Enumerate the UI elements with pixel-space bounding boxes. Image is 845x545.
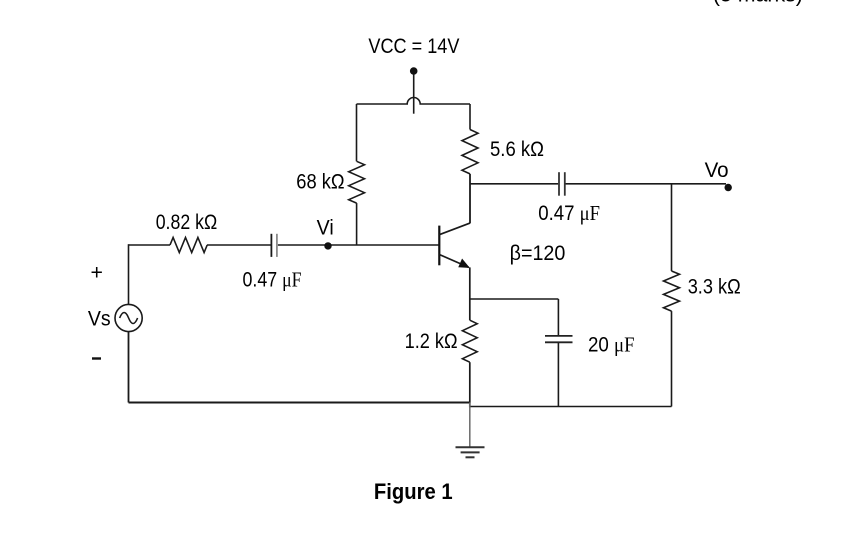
svg-text:0.47 μF: 0.47 μF [538, 201, 600, 225]
wire Vs upper lead [128, 244, 130, 304]
wire output node to R 3.3k [671, 184, 673, 271]
wire base line from Vi node into base [278, 244, 439, 246]
node Vi dot [324, 242, 331, 249]
svg-text:Vs: Vs [88, 307, 111, 331]
wire bottom right rail [470, 406, 672, 408]
resistor 1.2k zigzag [462, 320, 477, 362]
resistor 3.3k zigzag [664, 271, 680, 311]
node Vo terminal dot [725, 184, 732, 191]
wire top supply rail with hop over VCC stem [357, 98, 471, 105]
wire R 68k bottom to base node [356, 203, 358, 245]
label 0.47 uF output [538, 201, 600, 225]
wire emitter vertical upper [469, 267, 471, 320]
svg-text:Vi: Vi [317, 216, 334, 240]
wire resistor 1.2k bottom to ground rail [469, 362, 471, 407]
label Vs [88, 307, 111, 331]
wire R 3.3k bottom to ground rail [671, 311, 673, 406]
svg-text:0.82 kΩ: 0.82 kΩ [156, 210, 218, 234]
wire emitter tee to bypass cap [470, 299, 559, 335]
svg-text:0.47 μF: 0.47 μF [243, 268, 302, 292]
label Vi [317, 216, 334, 240]
wire bypass cap bottom lead [557, 343, 559, 407]
transistor Q1 emitter lead with arrow [439, 255, 469, 268]
svg-text:5.6 kΩ: 5.6 kΩ [490, 137, 544, 161]
svg-text:Vo: Vo [705, 158, 729, 182]
resistor 5.6k zigzag [462, 130, 478, 174]
label 3.3 kOhm [688, 275, 741, 299]
wire VCC stem [413, 75, 415, 114]
svg-text:3.3 kΩ: 3.3 kΩ [688, 275, 741, 299]
svg-text:β=120: β=120 [510, 241, 566, 265]
resistor 0.82k zigzag [170, 238, 207, 253]
node VCC terminal dot [410, 67, 418, 75]
capacitor output coupling 0.47uF plates [559, 172, 565, 196]
partial text "(5 marks)" cut at top edge [713, 0, 803, 6]
transistor Q1 collector lead [439, 223, 470, 235]
label 5.6 kOhm [490, 137, 544, 161]
svg-text:+: + [91, 261, 103, 285]
capacitor input coupling 0.47uF plates [271, 234, 277, 257]
transistor Q1 base bar [438, 226, 440, 266]
wire Vs lower lead [128, 332, 130, 403]
wire bottom left rail [129, 402, 470, 404]
label plus sign [91, 261, 103, 285]
wire right rail drop to R 5.6k [469, 104, 471, 130]
wire resistor 0.82k right to input cap [207, 244, 271, 246]
label minus sign [92, 357, 101, 359]
label 0.82 kOhm [156, 210, 218, 234]
label 0.47 uF input [243, 268, 302, 292]
svg-text:(5 marks): (5 marks) [713, 0, 803, 6]
wire ground stem [469, 403, 471, 448]
label Vo [705, 158, 729, 182]
label 1.2 kOhm [405, 329, 458, 353]
wire R 5.6k bottom to collector node [469, 174, 471, 223]
label beta=120 [510, 241, 566, 265]
svg-text:1.2 kΩ: 1.2 kΩ [405, 329, 458, 353]
svg-text:68 kΩ: 68 kΩ [296, 169, 344, 193]
wire collector output line [470, 183, 726, 185]
source Vs circle with sine [115, 304, 142, 331]
ground symbol [456, 447, 485, 457]
label 20 uF [588, 333, 635, 357]
caption Figure 1 [374, 479, 453, 504]
svg-text:VCC = 14V: VCC = 14V [368, 34, 460, 58]
wire Vs top to resistor 0.82k [129, 244, 171, 246]
svg-text:20 μF: 20 μF [588, 333, 635, 357]
capacitor bypass 20uF plates [545, 336, 573, 342]
wire left rail drop to R 68k [356, 104, 358, 161]
svg-text:Figure 1: Figure 1 [374, 479, 453, 504]
resistor 68k zigzag [349, 161, 365, 203]
label 68 kOhm [296, 169, 344, 193]
label VCC = 14V [368, 34, 460, 58]
